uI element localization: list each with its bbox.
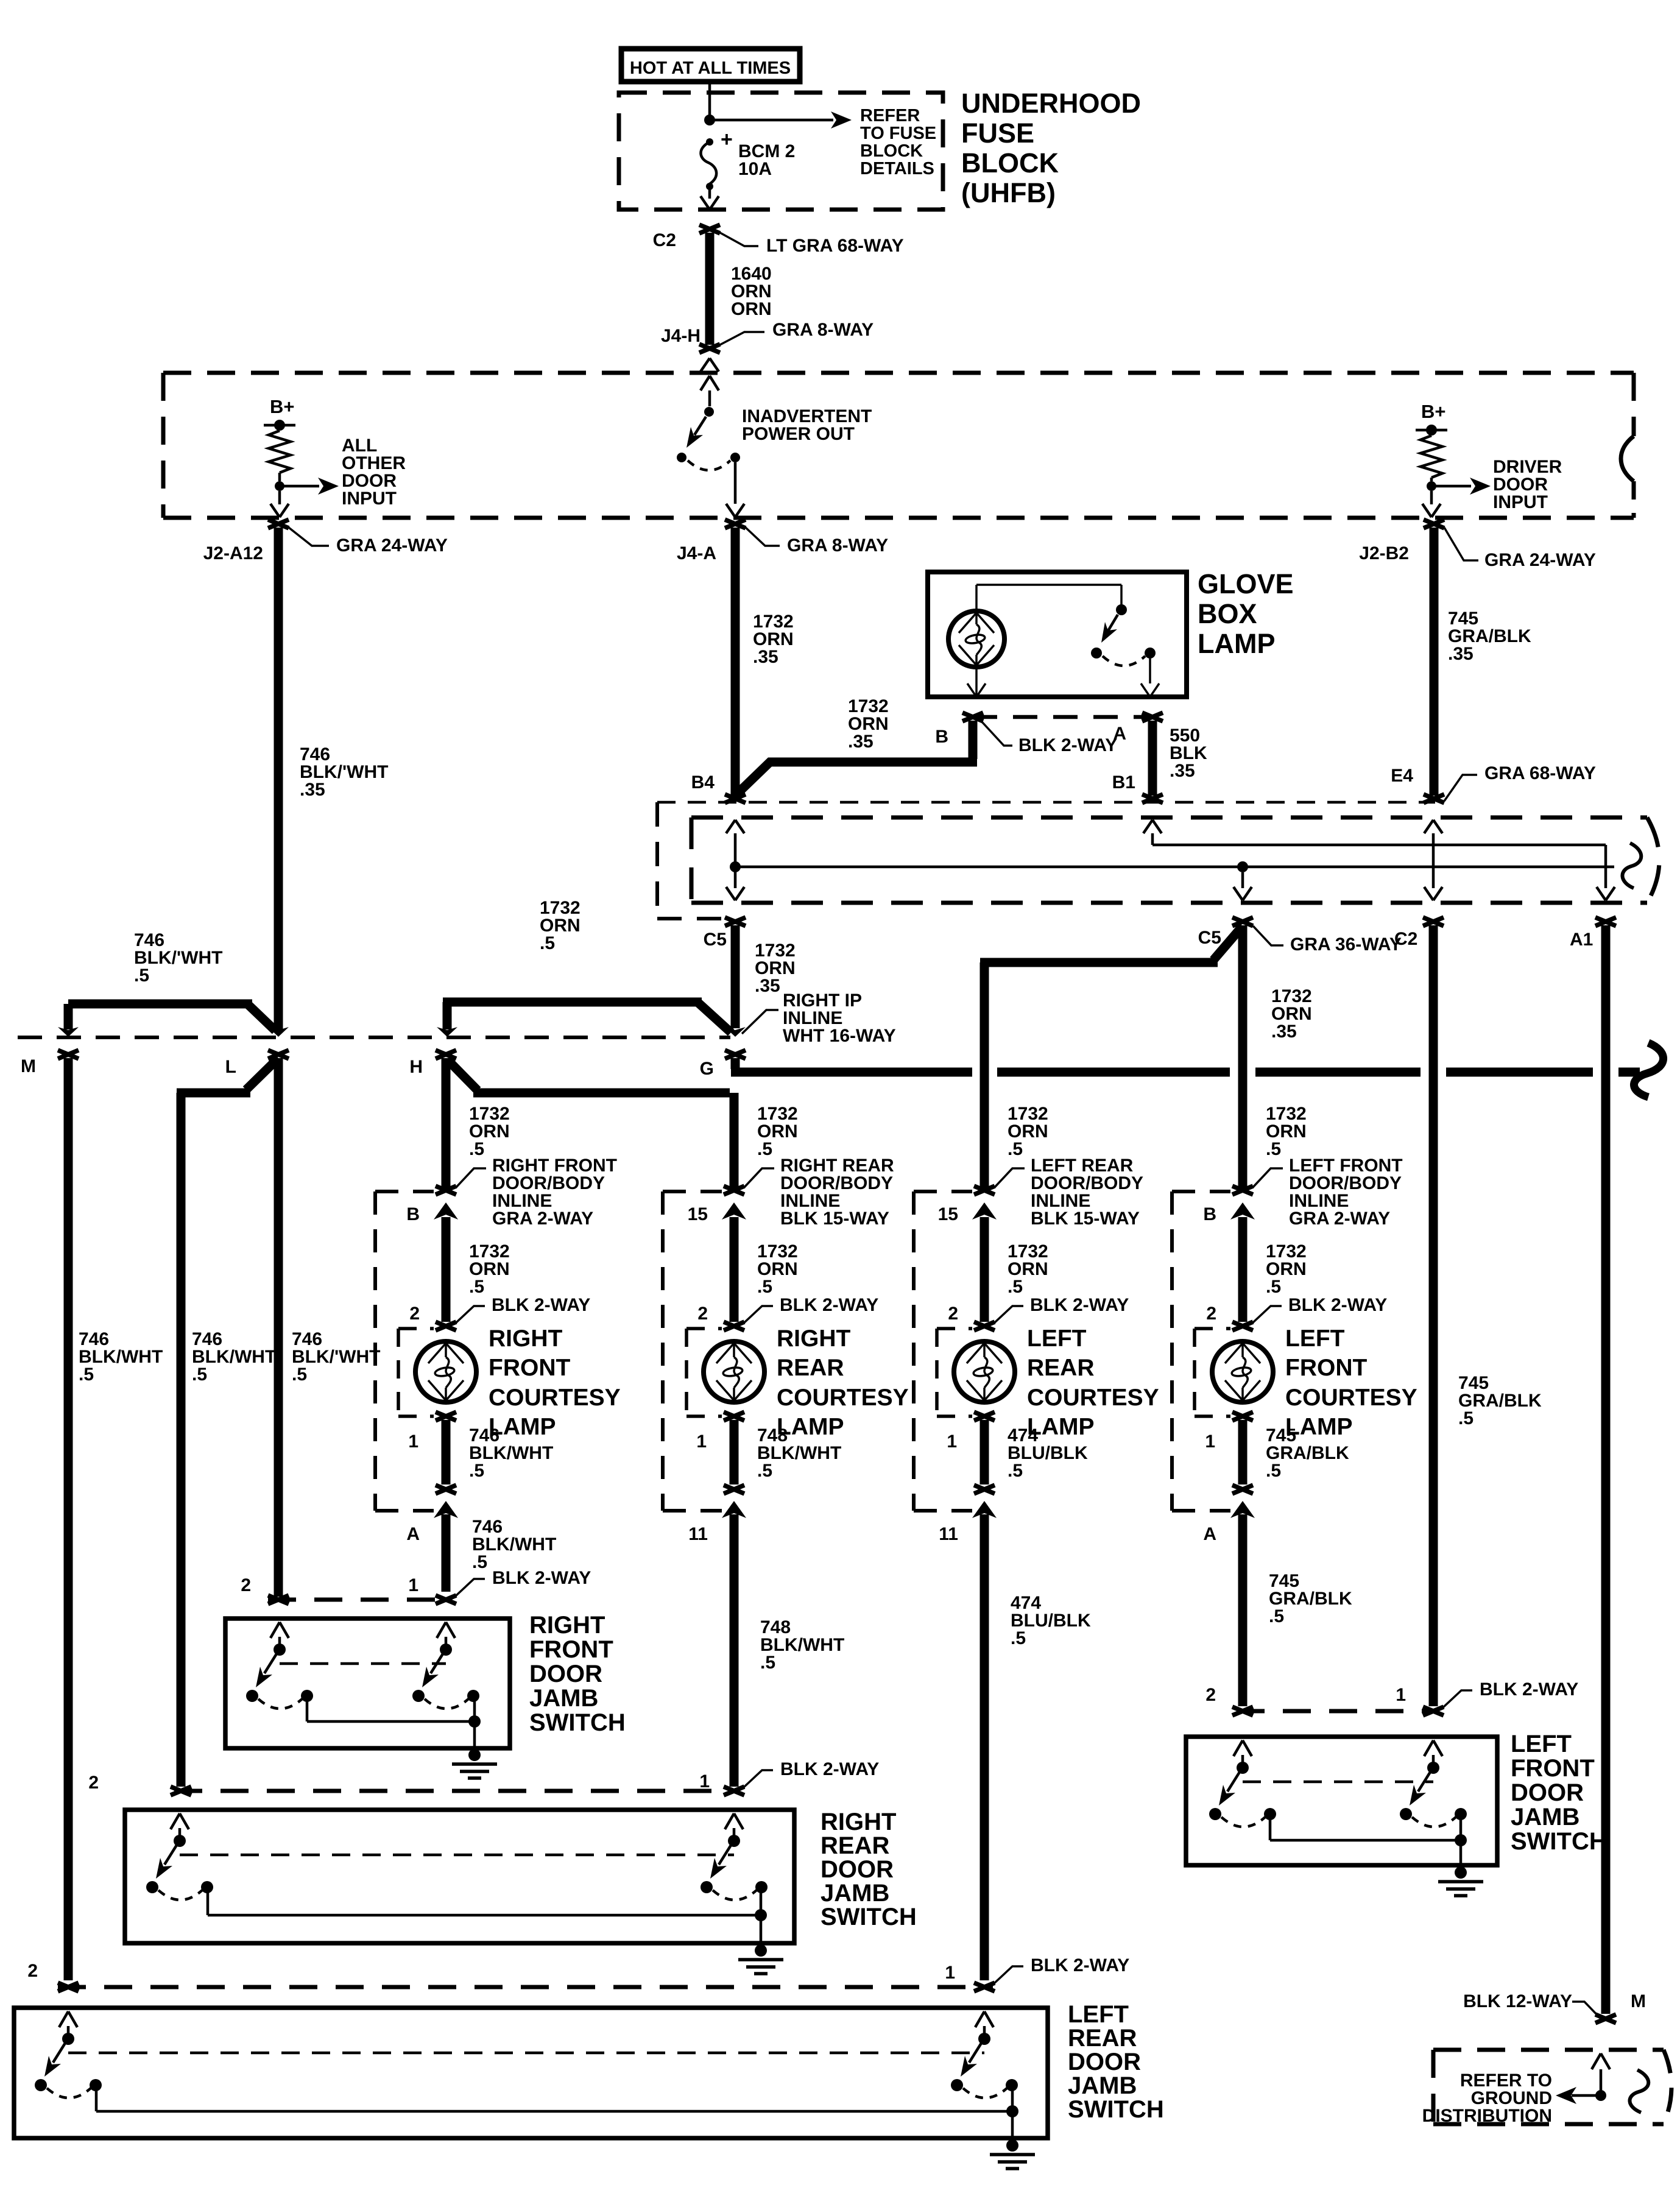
svg-text:J4-H: J4-H [661, 326, 701, 346]
wire glove box A to B1 [1148, 721, 1157, 796]
svg-text:.5: .5 [1266, 1139, 1281, 1159]
door/body inline connector (RIGHT REAR) [663, 1190, 722, 1193]
svg-text:2: 2 [697, 1304, 708, 1324]
svg-text:REAR: REAR [1068, 2025, 1137, 2052]
node: feed junction dot [704, 115, 715, 125]
svg-text:B4: B4 [691, 772, 715, 793]
door/body inline connector (LEFT FRONT) [1172, 1190, 1230, 1193]
ground (right front jamb switch) [468, 1749, 481, 1761]
svg-text:B1: B1 [1112, 772, 1135, 793]
svg-text:FRONT: FRONT [529, 1636, 613, 1663]
svg-text:A: A [406, 1524, 420, 1544]
dashed door boundary box for left front courtesy lamp [1170, 1191, 1174, 1511]
svg-text:H: H [409, 1057, 423, 1077]
svg-text:REFER: REFER [860, 106, 920, 125]
connector M [58, 1050, 79, 1059]
wire to door jamb switch [1238, 1514, 1248, 1706]
svg-text:GRA 24-WAY: GRA 24-WAY [336, 535, 448, 556]
connector door boundary exit [1232, 1485, 1253, 1494]
svg-text:SWITCH: SWITCH [529, 1709, 626, 1736]
wire to door jamb switch [980, 1514, 989, 1980]
svg-text:GRA 24-WAY: GRA 24-WAY [1484, 550, 1596, 570]
ground (left front jamb switch) [1455, 1866, 1467, 1879]
lamp dashed box for left rear courtesy lamp [937, 1327, 972, 1330]
dashed harness line with B4 B1 E4 [657, 801, 1435, 804]
svg-text:1: 1 [408, 1575, 418, 1595]
svg-text:COURTESY: COURTESY [489, 1385, 621, 1411]
svg-text:.35: .35 [1448, 644, 1474, 664]
dashed door boundary box for left rear courtesy lamp [912, 1191, 916, 1511]
svg-text:DOOR: DOOR [1068, 2049, 1141, 2075]
svg-text:BLK 15-WAY: BLK 15-WAY [780, 1209, 889, 1229]
connector E4 GRA 68-WAY [1424, 794, 1444, 803]
svg-text:GRA 2-WAY: GRA 2-WAY [492, 1209, 593, 1229]
svg-text:.5: .5 [469, 1139, 484, 1159]
connector door boundary exit [436, 1485, 456, 1494]
svg-text:.5: .5 [757, 1277, 772, 1297]
svg-text:GLOVE: GLOVE [1198, 568, 1294, 599]
svg-text:LEFT: LEFT [1285, 1326, 1345, 1352]
svg-text:BLK 2-WAY: BLK 2-WAY [780, 1759, 879, 1779]
svg-text:COURTESY: COURTESY [1285, 1385, 1417, 1411]
svg-text:BLK 2-WAY: BLK 2-WAY [1018, 735, 1117, 755]
svg-text:GRA 36-WAY: GRA 36-WAY [1290, 934, 1402, 955]
svg-text:SWITCH: SWITCH [1068, 2096, 1164, 2123]
svg-text:+: + [721, 128, 733, 151]
node B+: HOT AT ALL TIMES box [621, 49, 800, 82]
svg-text:DOOR: DOOR [529, 1661, 602, 1687]
svg-text:WHT 16-WAY: WHT 16-WAY [783, 1026, 896, 1046]
wire: G bus [731, 1058, 740, 1069]
dashed inline connector row M L H G [18, 1036, 730, 1039]
wire A1 to ground distribution [1601, 925, 1611, 2014]
svg-text:COURTESY: COURTESY [1027, 1385, 1159, 1411]
connector door boundary exit [724, 1485, 744, 1494]
connector J4-A GRA 8-WAY [725, 520, 746, 528]
svg-text:.5: .5 [760, 1653, 775, 1673]
connector H [436, 1050, 456, 1059]
svg-text:LT GRA 68-WAY: LT GRA 68-WAY [766, 236, 904, 256]
connector BLK 2-WAY under glove box [973, 715, 1152, 719]
svg-text:SWITCH: SWITCH [1511, 1828, 1607, 1855]
svg-text:BLK 2-WAY: BLK 2-WAY [492, 1295, 590, 1315]
svg-text:2: 2 [1205, 1685, 1216, 1705]
connector J2-A12 GRA 24-WAY [268, 520, 289, 528]
refer to ground distribution dashed box [1433, 2048, 1664, 2052]
wire C2 to left front door jamb switch [1429, 925, 1438, 1706]
svg-text:11: 11 [939, 1524, 958, 1544]
wire lamp pin 1 [1232, 1412, 1253, 1421]
svg-text:.5: .5 [469, 1461, 484, 1481]
svg-text:.5: .5 [1266, 1277, 1281, 1297]
BCM module outer dashed edge [655, 802, 659, 919]
svg-text:RIGHT: RIGHT [489, 1326, 563, 1352]
svg-text:J4-A: J4-A [677, 543, 716, 563]
wire L to right rear switch column [246, 1058, 278, 1090]
svg-text:.35: .35 [755, 976, 780, 996]
svg-text:.5: .5 [757, 1139, 772, 1159]
wire C5 down to right IP inline G [731, 925, 740, 1028]
svg-text:.35: .35 [1170, 761, 1195, 781]
svg-text:C5: C5 [704, 930, 727, 950]
svg-text:.5: .5 [192, 1364, 207, 1385]
connector G [725, 1050, 746, 1059]
svg-text:.5: .5 [1011, 1628, 1026, 1648]
connector BLK 2-WAY left rear jamb [58, 1985, 993, 1989]
svg-text:LEFT: LEFT [1511, 1731, 1572, 1757]
svg-text:BLK 2-WAY: BLK 2-WAY [780, 1295, 878, 1315]
svg-text:REAR: REAR [1027, 1355, 1095, 1381]
svg-text:.5: .5 [472, 1552, 487, 1572]
svg-text:B: B [1203, 1204, 1216, 1224]
svg-text:J2-B2: J2-B2 [1359, 543, 1409, 563]
connector C2 [1423, 917, 1444, 926]
svg-text:BLK 2-WAY: BLK 2-WAY [1030, 1295, 1129, 1315]
svg-text:.5: .5 [134, 966, 149, 986]
ground (right rear jamb switch) [755, 1944, 767, 1957]
svg-text:BLK 12-WAY: BLK 12-WAY [1463, 1991, 1572, 2011]
svg-text:.5: .5 [469, 1277, 484, 1297]
underhood fuse block UHFB dashed box [619, 93, 943, 210]
svg-text:BLK 15-WAY: BLK 15-WAY [1031, 1209, 1140, 1229]
svg-text:LEFT: LEFT [1068, 2001, 1129, 2028]
svg-text:RIGHT: RIGHT [821, 1809, 896, 1835]
wire 746 BLK/WHT .5 branch to M [68, 1000, 252, 1009]
svg-text:B: B [406, 1204, 420, 1224]
svg-text:2: 2 [27, 1961, 38, 1981]
svg-text:DOOR: DOOR [1511, 1779, 1584, 1806]
svg-text:M: M [21, 1056, 36, 1076]
svg-text:.35: .35 [300, 780, 325, 800]
svg-text:BLOCK: BLOCK [961, 147, 1059, 178]
svg-text:1: 1 [945, 1963, 955, 1983]
svg-text:BLK 2-WAY: BLK 2-WAY [1480, 1679, 1578, 1700]
svg-text:COURTESY: COURTESY [777, 1385, 909, 1411]
svg-text:11: 11 [688, 1524, 708, 1544]
svg-text:B: B [935, 727, 948, 747]
connector J2-B2 GRA 24-WAY [1424, 520, 1444, 528]
svg-text:REAR: REAR [777, 1355, 844, 1381]
svg-text:ORN: ORN [731, 299, 772, 319]
wire from HOT box into fuse block [708, 82, 711, 118]
svg-text:B+: B+ [270, 396, 295, 417]
svg-text:GRA 68-WAY: GRA 68-WAY [1484, 763, 1596, 783]
connector BLK 2-WAY left front jamb [1237, 1709, 1438, 1714]
svg-text:TO FUSE: TO FUSE [860, 124, 936, 143]
svg-text:.35: .35 [753, 647, 778, 667]
wire 746 BLK/WHT .35 from J2-A12 [274, 528, 283, 1031]
svg-text:.35: .35 [1271, 1022, 1297, 1042]
svg-text:LAMP: LAMP [1198, 628, 1276, 659]
wire to door jamb switch [442, 1514, 451, 1592]
right rear door jamb switch [125, 1810, 794, 1943]
svg-text:REAR: REAR [821, 1832, 889, 1859]
svg-text:.5: .5 [540, 933, 555, 953]
svg-text:DISTRIBUTION: DISTRIBUTION [1422, 2106, 1552, 2126]
dashed module box: door input row [163, 371, 1634, 375]
svg-text:DETAILS: DETAILS [860, 159, 934, 178]
svg-text:FRONT: FRONT [1511, 1755, 1595, 1782]
svg-text:.35: .35 [848, 732, 874, 752]
svg-text:BLK 2-WAY: BLK 2-WAY [492, 1568, 591, 1588]
svg-text:1: 1 [408, 1432, 418, 1452]
connector BLK 2-WAY right rear jamb [174, 1789, 739, 1793]
lamp dashed box for left front courtesy lamp [1195, 1327, 1230, 1330]
svg-text:C5: C5 [1198, 928, 1221, 948]
left front door jamb switch [1186, 1737, 1497, 1865]
svg-text:M: M [1631, 1991, 1646, 2011]
svg-text:GRA 2-WAY: GRA 2-WAY [1289, 1209, 1390, 1229]
connector B1 [1142, 794, 1163, 803]
svg-text:RIGHT: RIGHT [777, 1326, 851, 1352]
svg-text:E4: E4 [1391, 766, 1413, 786]
lamp right rear courtesy lamp [704, 1341, 764, 1402]
svg-text:C2: C2 [653, 230, 676, 250]
svg-text:BLOCK: BLOCK [860, 141, 923, 161]
svg-text:INPUT: INPUT [1493, 492, 1548, 512]
switch: INADVERTENT POWER OUT [701, 376, 710, 390]
svg-text:.5: .5 [1269, 1606, 1284, 1626]
svg-text:10A: 10A [738, 159, 772, 179]
svg-text:BOX: BOX [1198, 598, 1257, 629]
wire C5 to left rear lamp [1213, 926, 1243, 960]
wire L to right front switch column [274, 1058, 283, 1597]
wire glove box B to B4 [969, 721, 978, 759]
svg-text:1: 1 [947, 1432, 957, 1452]
wire lamp pin 1 [974, 1412, 995, 1421]
svg-text:JAMB: JAMB [529, 1685, 598, 1712]
wire: arrow up to J4-H [701, 358, 710, 372]
svg-text:1: 1 [696, 1432, 707, 1452]
svg-text:.5: .5 [1008, 1461, 1023, 1481]
svg-text:SWITCH: SWITCH [821, 1904, 917, 1930]
svg-text:JAMB: JAMB [1511, 1804, 1579, 1830]
svg-text:2: 2 [88, 1773, 99, 1793]
svg-text:DOOR: DOOR [821, 1856, 894, 1883]
svg-text:LEFT: LEFT [1027, 1326, 1087, 1352]
dashed door boundary box for right rear courtesy lamp [661, 1191, 665, 1511]
svg-text:.5: .5 [757, 1461, 772, 1481]
connector BLK 2-WAY right front jamb [268, 1598, 451, 1602]
svg-text:A1: A1 [1570, 930, 1593, 950]
svg-text:L: L [225, 1057, 236, 1077]
svg-text:FRONT: FRONT [489, 1355, 570, 1381]
svg-text:G: G [700, 1059, 714, 1079]
svg-text:.5: .5 [79, 1364, 94, 1385]
svg-text:C2: C2 [1394, 929, 1417, 949]
svg-text:.5: .5 [292, 1364, 307, 1385]
svg-text:15: 15 [938, 1204, 958, 1224]
dashed door boundary box for right front courtesy lamp [373, 1191, 377, 1511]
svg-text:JAMB: JAMB [821, 1880, 889, 1907]
glove box lamp box [928, 572, 1187, 697]
svg-text:HOT AT ALL TIMES: HOT AT ALL TIMES [630, 58, 791, 78]
svg-text:A: A [1203, 1524, 1216, 1544]
wire H to right rear lamp [447, 1059, 478, 1090]
connector A1 [1595, 917, 1616, 926]
svg-text:FUSE: FUSE [961, 118, 1034, 149]
svg-text:BLK 2-WAY: BLK 2-WAY [1031, 1955, 1129, 1975]
wire 745 GRA/BLK .35 from J2-B2 [1430, 528, 1439, 796]
lamp left rear courtesy lamp [954, 1341, 1015, 1402]
lamp left front courtesy lamp [1212, 1341, 1273, 1402]
svg-text:.5: .5 [1008, 1277, 1023, 1297]
svg-text:.5: .5 [1458, 1408, 1474, 1428]
left rear door jamb switch [14, 2008, 1048, 2138]
right front door jamb switch [225, 1619, 510, 1748]
connector C5 (to left doors) [1232, 917, 1253, 926]
svg-text:.5: .5 [1266, 1461, 1281, 1481]
svg-text:J2-A12: J2-A12 [203, 543, 263, 563]
lamp right front courtesy lamp [415, 1341, 476, 1402]
connector C2: wire 1640 ORN from fuse block [699, 225, 720, 233]
svg-text:.5: .5 [1008, 1139, 1023, 1159]
ground (left rear jamb switch) [1006, 2139, 1018, 2152]
svg-text:FRONT: FRONT [1285, 1355, 1367, 1381]
switch: glove box lamp switch [976, 584, 1121, 586]
svg-text:(UHFB): (UHFB) [961, 177, 1056, 208]
wire M column down to left rear switch [64, 1058, 73, 1980]
svg-text:UNDERHOOD: UNDERHOOD [961, 88, 1141, 119]
svg-text:2: 2 [241, 1575, 251, 1595]
connector L [268, 1050, 289, 1059]
connector door boundary exit [974, 1485, 995, 1494]
svg-text:POWER OUT: POWER OUT [742, 424, 855, 444]
svg-text:1: 1 [1205, 1432, 1215, 1452]
wire H to right front lamp [442, 1058, 451, 1188]
wire 1732 ORN .35 from J4-A [731, 528, 740, 796]
door/body inline connector (LEFT REAR) [914, 1190, 972, 1193]
svg-text:15: 15 [688, 1204, 708, 1224]
connector C5 (to right IP) [725, 917, 746, 926]
svg-text:JAMB: JAMB [1068, 2072, 1137, 2099]
svg-text:1: 1 [1396, 1685, 1406, 1705]
connector B4 [725, 794, 746, 803]
svg-text:BLK 2-WAY: BLK 2-WAY [1288, 1295, 1387, 1315]
door/body inline connector (RIGHT FRONT) [375, 1190, 434, 1193]
svg-text:2: 2 [409, 1304, 420, 1324]
svg-text:2: 2 [948, 1304, 958, 1324]
lamp dashed box for right front courtesy lamp [398, 1327, 434, 1330]
svg-text:B+: B+ [1421, 401, 1446, 422]
lamp dashed box for right rear courtesy lamp [686, 1327, 722, 1330]
wire to door jamb switch [730, 1514, 739, 1787]
BCM internal wiring [726, 820, 735, 833]
wire lamp pin 1 [436, 1412, 456, 1421]
wire: arrow to fuse block details [710, 119, 833, 122]
BCM module inner dashed box [691, 816, 1647, 820]
lamp: glove box bulb [948, 611, 1004, 667]
svg-text:GRA 8-WAY: GRA 8-WAY [787, 535, 888, 556]
svg-text:1: 1 [699, 1771, 710, 1792]
wire 1732 ORN .5 branch to H [443, 998, 702, 1007]
wire lamp pin 1 [724, 1412, 744, 1421]
wire C5 to left front lamp [1238, 925, 1248, 1188]
svg-text:GRA 8-WAY: GRA 8-WAY [772, 320, 874, 340]
svg-text:2: 2 [1206, 1304, 1216, 1324]
svg-text:RIGHT: RIGHT [529, 1612, 605, 1639]
svg-text:INPUT: INPUT [342, 489, 397, 509]
